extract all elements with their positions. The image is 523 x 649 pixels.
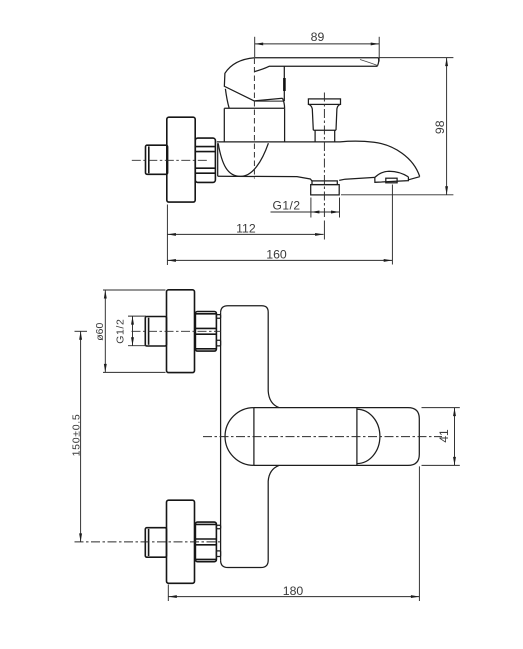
svg-text:180: 180 [283, 584, 304, 598]
svg-text:89: 89 [311, 30, 325, 44]
svg-text:98: 98 [433, 120, 447, 134]
svg-text:G1/2: G1/2 [114, 319, 126, 344]
svg-text:160: 160 [266, 248, 287, 262]
svg-text:41: 41 [437, 429, 451, 443]
svg-text:150±0.5: 150±0.5 [70, 414, 82, 457]
svg-text:G1/2: G1/2 [273, 198, 301, 212]
svg-text:112: 112 [236, 222, 256, 236]
svg-text:ø60: ø60 [94, 322, 106, 340]
